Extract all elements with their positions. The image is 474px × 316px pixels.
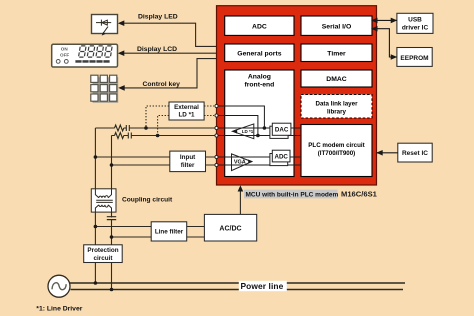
svg-text:M16C/6S1: M16C/6S1	[341, 190, 378, 199]
svg-text:Analog: Analog	[248, 74, 271, 81]
svg-text:External: External	[174, 104, 199, 111]
svg-text:LD *1: LD *1	[178, 111, 195, 118]
svg-text:DMAC: DMAC	[326, 76, 346, 83]
svg-text:Power line: Power line	[241, 281, 284, 291]
svg-text:library: library	[327, 108, 346, 115]
svg-text:AC/DC: AC/DC	[219, 225, 241, 232]
svg-text:Protection: Protection	[87, 247, 118, 254]
svg-text:driver IC: driver IC	[402, 25, 429, 32]
svg-text:Serial I/O: Serial I/O	[322, 23, 351, 30]
svg-text:Reset IC: Reset IC	[402, 150, 428, 157]
svg-text:*1: Line Driver: *1: Line Driver	[36, 305, 82, 312]
svg-text:Input: Input	[180, 154, 196, 161]
svg-text:ADC: ADC	[252, 23, 267, 30]
svg-text:OFF: OFF	[60, 53, 69, 58]
svg-text:LD *1: LD *1	[242, 129, 254, 134]
svg-text:EEPROM: EEPROM	[400, 55, 428, 62]
svg-text:ON: ON	[61, 47, 69, 52]
svg-text:MCU with built-in PLC modem: MCU with built-in PLC modem	[246, 191, 339, 198]
svg-text:(IT700/IT900): (IT700/IT900)	[318, 150, 356, 157]
svg-text:General ports: General ports	[237, 50, 281, 57]
svg-text:Line filter: Line filter	[155, 229, 184, 236]
svg-text:DAC: DAC	[275, 127, 289, 134]
svg-text:Control key: Control key	[143, 81, 181, 88]
svg-text:Coupling circuit: Coupling circuit	[122, 197, 173, 204]
svg-text:Data link layer: Data link layer	[316, 100, 359, 107]
svg-text:USB: USB	[408, 17, 422, 24]
svg-text:front-end: front-end	[244, 82, 274, 89]
svg-text:filter: filter	[181, 162, 195, 169]
svg-text:Timer: Timer	[327, 50, 346, 57]
svg-text:Display LCD: Display LCD	[137, 46, 177, 53]
svg-text:Display LED: Display LED	[138, 14, 178, 21]
svg-text:circuit: circuit	[94, 255, 114, 262]
svg-text:ADC: ADC	[274, 154, 288, 161]
svg-text:PLC modem circuit: PLC modem circuit	[308, 142, 364, 149]
svg-text:VGA: VGA	[234, 160, 246, 166]
